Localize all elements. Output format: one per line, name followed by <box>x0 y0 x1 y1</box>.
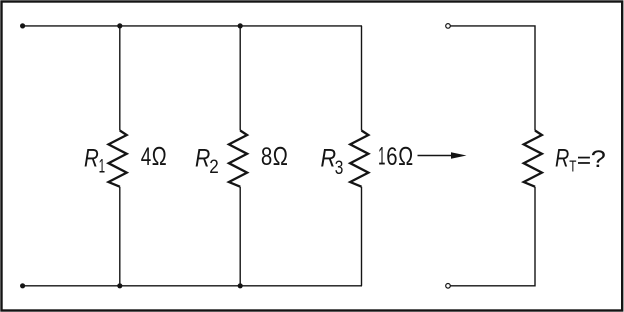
svg-text:R: R <box>321 145 337 173</box>
svg-text:1: 1 <box>378 144 385 171</box>
svg-text:4: 4 <box>141 143 152 171</box>
node junction R2 top <box>238 23 243 28</box>
wire R2 branch bottom <box>239 187 241 286</box>
svg-text:Ω: Ω <box>273 141 288 171</box>
resistor R1 <box>109 131 127 187</box>
svg-text:R: R <box>555 145 569 173</box>
arrow head <box>451 152 467 159</box>
svg-text:3: 3 <box>335 157 344 179</box>
svg-text:6: 6 <box>386 143 397 171</box>
wire R3 branch bottom <box>361 187 363 286</box>
svg-text:T: T <box>569 158 576 175</box>
svg-text:Ω: Ω <box>152 141 167 171</box>
equals sign top bar <box>578 157 590 159</box>
arrow (equivalence) shaft <box>418 155 453 157</box>
svg-text:1: 1 <box>99 155 106 177</box>
equals sign bottom bar <box>578 162 590 164</box>
node junction R1 top <box>117 23 122 28</box>
wire R3 branch top <box>361 26 363 131</box>
node junction R2 bottom <box>238 283 243 288</box>
wire right top <box>450 26 535 131</box>
svg-text:8: 8 <box>261 143 272 171</box>
node right top terminal (open) <box>446 24 451 29</box>
svg-text:2: 2 <box>209 156 219 178</box>
resistor RT <box>524 131 542 187</box>
node left top terminal <box>20 23 25 28</box>
svg-text:R: R <box>195 145 210 173</box>
svg-text:?: ? <box>591 146 606 173</box>
wire right bottom <box>450 187 535 286</box>
wire R1 branch top <box>119 26 121 131</box>
node left bottom terminal <box>20 283 25 288</box>
resistor R2 <box>229 131 247 187</box>
wire bottom bus <box>23 285 362 287</box>
wire R2 branch top <box>239 26 241 131</box>
wire R1 branch bottom <box>119 187 121 286</box>
node junction R1 bottom <box>117 283 122 288</box>
svg-text:Ω: Ω <box>398 141 413 171</box>
wire top bus <box>23 25 362 27</box>
svg-text:R: R <box>84 145 99 173</box>
resistor R3 <box>350 131 368 187</box>
node right bottom terminal (open) <box>446 284 451 289</box>
